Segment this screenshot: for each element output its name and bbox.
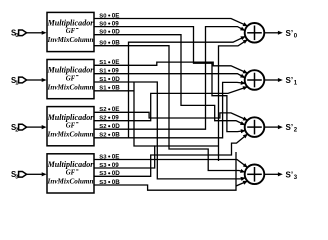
svg-text:GF: GF bbox=[66, 170, 76, 177]
svg-text:S’: S’ bbox=[286, 76, 294, 85]
svg-text:0: 0 bbox=[15, 33, 18, 39]
svg-text:InvMixColumn: InvMixColumn bbox=[47, 130, 94, 138]
svg-text:Multiplicador: Multiplicador bbox=[47, 113, 95, 122]
svg-text:2: 2 bbox=[15, 127, 18, 133]
svg-text:S’: S’ bbox=[286, 29, 294, 38]
svg-text:GF: GF bbox=[66, 122, 76, 129]
svg-text:InvMixColumn: InvMixColumn bbox=[47, 83, 94, 91]
svg-text:S’: S’ bbox=[286, 170, 294, 179]
svg-text:GF: GF bbox=[66, 28, 76, 35]
svg-text:Multiplicador: Multiplicador bbox=[47, 160, 95, 169]
svg-text:InvMixColumn: InvMixColumn bbox=[47, 36, 94, 44]
svg-text:Multiplicador: Multiplicador bbox=[47, 66, 95, 75]
svg-text:3: 3 bbox=[15, 175, 18, 181]
svg-text:GF: GF bbox=[66, 75, 76, 82]
svg-text:Multiplicador: Multiplicador bbox=[47, 19, 95, 28]
svg-text:1: 1 bbox=[15, 80, 18, 86]
svg-text:InvMixColumn: InvMixColumn bbox=[47, 178, 94, 186]
svg-text:S’: S’ bbox=[286, 123, 294, 132]
